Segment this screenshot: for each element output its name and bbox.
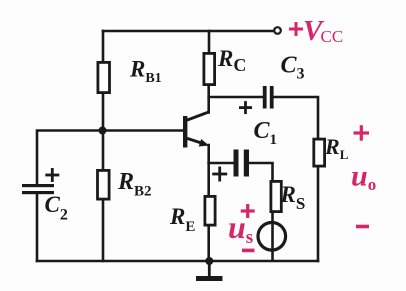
wire C1 to RS branch xyxy=(248,163,273,180)
wire RL bottom to ground rail xyxy=(317,168,320,262)
resistor RE xyxy=(205,196,215,225)
label +VCC xyxy=(289,15,343,47)
capacitor C1 xyxy=(234,150,250,177)
wire RB1 bottom to base node xyxy=(102,94,105,169)
capacitor polarity plus C3 xyxy=(239,101,252,114)
resistor RB1 xyxy=(98,62,110,92)
label us plus xyxy=(241,204,255,218)
terminal VCC xyxy=(274,27,281,34)
node base junction xyxy=(99,127,107,135)
label uo plus xyxy=(354,125,370,141)
resistor RS xyxy=(271,181,281,211)
source us circle xyxy=(258,223,286,251)
transistor Q1 xyxy=(183,112,209,148)
wire C1 node to RE xyxy=(207,163,210,195)
wire RB2 bottom to ground rail xyxy=(102,201,105,262)
wire base node to C2 branch xyxy=(37,131,103,185)
wire RE bottom to ground rail xyxy=(207,227,210,262)
wire collector node to C3 xyxy=(209,96,263,99)
wire emitter down to C1 node xyxy=(207,145,210,163)
wire base xyxy=(103,129,184,132)
wire left branch upper (VCC to RB1) xyxy=(102,31,105,61)
wire RC branch top xyxy=(208,31,211,52)
capacitor polarity plus C2 xyxy=(45,168,59,182)
wire through source xyxy=(271,223,274,261)
label us minus xyxy=(242,249,255,253)
resistor RC xyxy=(204,53,215,84)
capacitor C2 xyxy=(22,184,54,194)
svg-text:CC: CC xyxy=(321,27,344,46)
capacitor C3 xyxy=(263,86,274,109)
wire RS bottom to source xyxy=(271,213,274,224)
resistor RL xyxy=(314,139,325,166)
label uo minus xyxy=(356,225,369,229)
resistor RB2 xyxy=(98,170,110,199)
node ground junction xyxy=(205,257,213,265)
wire emitter node to C1 xyxy=(209,162,234,165)
wire RC bottom to collector xyxy=(207,86,210,113)
wire C3 to right branch xyxy=(274,97,319,138)
capacitor polarity plus C1 xyxy=(212,167,227,182)
wire bottom ground rail xyxy=(37,260,318,263)
ground xyxy=(196,261,223,279)
wire C2 bottom to ground rail xyxy=(36,194,39,261)
wire top rail xyxy=(103,30,275,33)
